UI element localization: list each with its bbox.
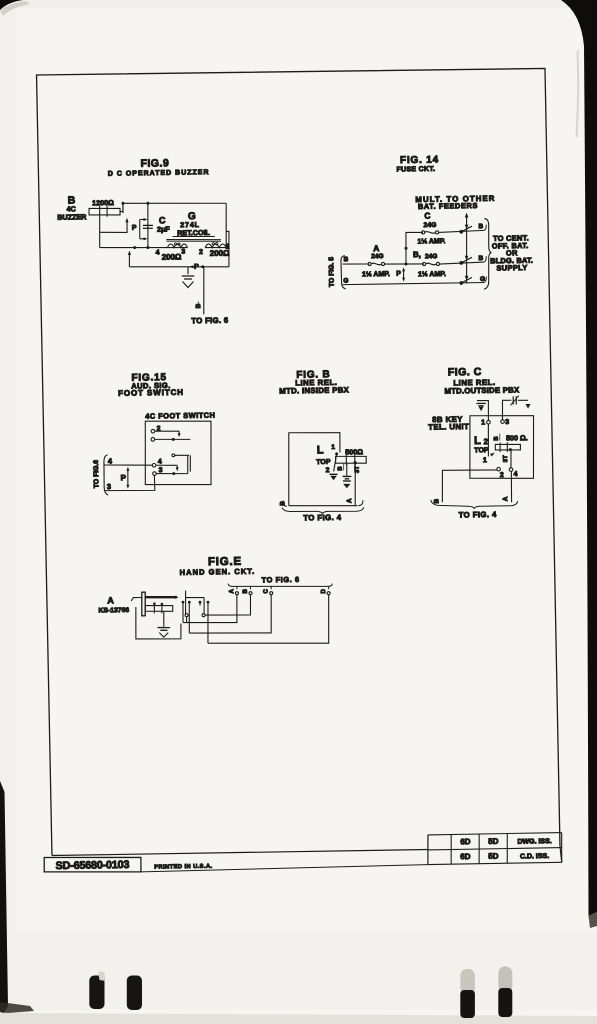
svg-text:1⅓ AMP.: 1⅓ AMP. [418,271,446,278]
svg-text:C: C [424,211,430,221]
svg-text:D: D [320,588,327,593]
svg-text:TEL. UNIT: TEL. UNIT [428,422,469,432]
svg-text:TOP: TOP [316,459,331,466]
svg-text:A: A [228,588,235,593]
svg-text:4: 4 [156,249,160,256]
svg-text:2: 2 [326,467,330,474]
svg-text:C.D. ISS.: C.D. ISS. [520,853,549,860]
svg-text:2: 2 [199,249,203,256]
svg-text:B: B [494,436,500,441]
svg-text:A: A [502,496,509,501]
svg-text:P: P [121,473,127,482]
svg-text:TO FIG. 6: TO FIG. 6 [191,316,229,326]
svg-text:BUZZER: BUZZER [57,212,87,221]
svg-text:3: 3 [107,482,111,491]
svg-text:FIG. 14: FIG. 14 [400,155,439,167]
svg-text:TOP: TOP [474,447,489,454]
svg-text:24G: 24G [423,222,436,229]
svg-text:24G: 24G [371,253,383,260]
svg-text:5D: 5D [488,837,499,846]
svg-text:6D: 6D [460,837,471,846]
svg-text:C: C [263,589,270,594]
svg-text:24G: 24G [425,253,437,260]
svg-text:G: G [343,278,348,285]
svg-text:1200Ω: 1200Ω [92,198,114,207]
svg-text:P: P [132,225,137,232]
svg-text:1⅓ AMP.: 1⅓ AMP. [362,271,390,278]
svg-text:BAT. FEEDERS: BAT. FEEDERS [418,201,478,211]
svg-text:3T: 3T [503,455,509,462]
svg-text:FIG. C: FIG. C [448,366,482,379]
svg-text:B: B [433,498,440,503]
svg-text:TO FIG. 4: TO FIG. 4 [303,513,342,523]
svg-text:A: A [107,595,114,605]
svg-text:TO FIG. 4: TO FIG. 4 [459,510,498,520]
svg-text:FOOT SWITCH: FOOT SWITCH [118,388,184,398]
svg-text:1: 1 [481,419,485,426]
svg-text:B: B [195,303,202,308]
svg-text:L: L [317,444,324,456]
svg-text:PRINTED IN U.S.A.: PRINTED IN U.S.A. [154,864,212,871]
svg-text:200Ω: 200Ω [162,252,182,261]
svg-text:2μF: 2μF [157,224,171,233]
svg-text:4: 4 [513,471,517,478]
svg-text:RET.COIL: RET.COIL [177,228,210,238]
svg-text:B: B [478,223,483,230]
svg-text:200Ω: 200Ω [210,249,230,258]
svg-text:KS-13766: KS-13766 [98,607,129,615]
svg-text:1: 1 [331,444,335,451]
svg-text:4: 4 [158,459,162,466]
svg-text:B: B [242,588,249,593]
svg-text:MTD. INSIDE PBX: MTD. INSIDE PBX [279,385,350,395]
svg-text:TO FIG. 6: TO FIG. 6 [261,575,299,585]
svg-text:B: B [344,256,349,263]
svg-text:1: 1 [483,457,487,464]
svg-text:B: B [338,466,344,471]
svg-text:3: 3 [181,249,185,256]
svg-text:A: A [346,498,353,503]
svg-text:FUSE CKT.: FUSE CKT. [396,166,435,174]
svg-text:1⅓ AMP.: 1⅓ AMP. [417,238,445,245]
svg-text:TO FIG.6: TO FIG.6 [93,460,100,489]
svg-text:5D: 5D [488,852,499,861]
svg-text:L: L [474,435,481,447]
svg-text:6D: 6D [460,852,471,861]
svg-text:FIG.9: FIG.9 [140,157,169,169]
svg-text:TO FIG. 5: TO FIG. 5 [328,257,336,287]
svg-text:4C FOOT SWITCH: 4C FOOT SWITCH [145,411,215,421]
svg-text:500 Ω.: 500 Ω. [506,433,528,442]
svg-text:B,: B, [413,250,421,259]
svg-text:SD-65680-0103: SD-65680-0103 [56,859,130,872]
svg-text:3: 3 [505,419,509,426]
svg-text:MTD.OUTSIDE PBX: MTD.OUTSIDE PBX [444,385,520,395]
svg-text:P: P [396,271,401,278]
svg-text:DWG. ISS.: DWG. ISS. [517,838,551,846]
svg-text:P: P [194,264,199,271]
svg-text:SUPPLY: SUPPLY [496,263,527,273]
svg-text:B: B [478,255,483,262]
svg-text:A: A [373,243,379,253]
svg-text:2: 2 [500,472,504,479]
svg-text:HAND GEN. CKT.: HAND GEN. CKT. [180,567,256,577]
